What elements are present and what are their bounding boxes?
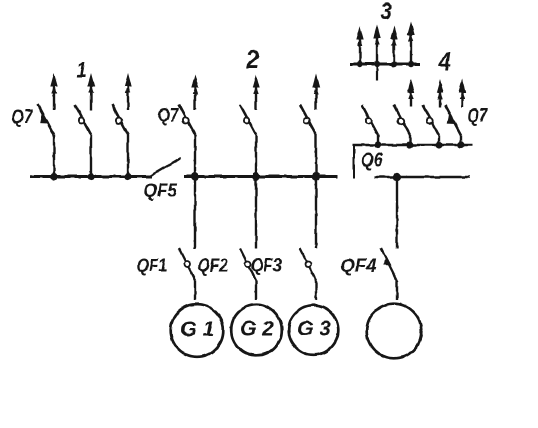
svg-text:G 3: G 3	[297, 318, 331, 341]
wire: left busbar section	[30, 175, 152, 178]
wire: right busbar (Q6 section)	[353, 144, 473, 147]
feeder arrow 4 on bar 3	[410, 32, 412, 64]
generator G3 circle	[289, 305, 339, 355]
wire: feeder from bus down to QF2	[255, 177, 257, 249]
switch-disconnector right Q7 group pole 4	[460, 135, 462, 145]
generator G4 circle	[367, 304, 422, 359]
outgoing feeder arrow above Q7 pole 1	[53, 83, 55, 110]
svg-text:Q6: Q6	[361, 148, 384, 171]
switch-disconnector Q7 pole 3 with hinge and bus junction	[127, 135, 129, 177]
node: junction on lower-right link	[393, 173, 401, 181]
svg-text:3: 3	[381, 0, 393, 24]
feeder arrow 3 on bar 3	[393, 36, 395, 64]
switch-disconnector Q7 pole 1 with hinge and bus junction	[53, 135, 55, 177]
wire: feeder from bus down to QF3	[315, 177, 317, 249]
feeder arrow 2 on bar 3	[376, 35, 378, 64]
svg-text:G 2: G 2	[240, 318, 274, 341]
switch-disconnector right Q7 group pole 2	[409, 135, 411, 145]
outgoing feeder arrow above right Q7 pole 2	[410, 89, 412, 107]
wire: Q6 left end drop	[353, 145, 355, 179]
wire: drop from bar 3 to switch Q7 pole 1	[376, 64, 378, 81]
svg-text:4: 4	[438, 47, 451, 75]
circuit breaker QF2	[240, 249, 256, 281]
circuit breaker QF3	[300, 249, 316, 281]
svg-text:Q7: Q7	[12, 106, 34, 128]
svg-text:2: 2	[245, 46, 260, 74]
feeder arrow 1 on bar 3	[359, 36, 361, 63]
svg-text:Q7: Q7	[468, 105, 489, 126]
outgoing feeder arrow above second group pole 1	[194, 84, 196, 110]
svg-text:QF1: QF1	[137, 254, 168, 276]
svg-text:Q7: Q7	[158, 104, 180, 126]
switch-disconnector Q7 second group pole 3	[315, 135, 317, 177]
generator G2 circle	[231, 305, 282, 356]
svg-text:QF5: QF5	[144, 180, 178, 201]
circuit breaker QF4	[381, 249, 397, 281]
wire: lower-right horizontal link	[374, 176, 470, 178]
outgoing feeder arrow above Q7 pole 3	[127, 83, 129, 110]
svg-text:QF2: QF2	[198, 254, 229, 276]
disconnector QF5 open blade in bus tie	[149, 158, 181, 177]
switch-disconnector Q7 second group pole 1	[194, 135, 196, 177]
wire: horizontal bar of feeder group 3	[350, 63, 421, 66]
wire: feeder from junction down to QF4	[396, 177, 398, 249]
switch-disconnector Q7 pole 2 with hinge and bus junction	[90, 135, 92, 177]
outgoing feeder arrow above right Q7 pole 4	[461, 89, 463, 107]
circuit breaker QF1	[179, 249, 195, 281]
svg-text:QF4: QF4	[341, 255, 377, 276]
svg-text:QF3: QF3	[251, 254, 282, 276]
outgoing feeder arrow above right Q7 pole 3	[439, 89, 441, 107]
wire: middle busbar section	[184, 175, 337, 178]
outgoing feeder arrow above Q7 pole 2	[90, 83, 92, 110]
svg-text:G 1: G 1	[181, 318, 215, 341]
switch-disconnector right Q7 group pole 3	[438, 135, 440, 145]
switch-disconnector Q7 second group pole 2	[255, 135, 257, 177]
wire: feeder from bus down to QF1	[194, 177, 196, 249]
outgoing feeder arrow above second group pole 2	[255, 84, 257, 110]
switch-disconnector right Q7 group pole 1	[377, 135, 379, 145]
outgoing feeder arrow above second group pole 3	[315, 84, 317, 110]
svg-text:1: 1	[77, 58, 87, 83]
generator G1 circle	[171, 304, 224, 357]
